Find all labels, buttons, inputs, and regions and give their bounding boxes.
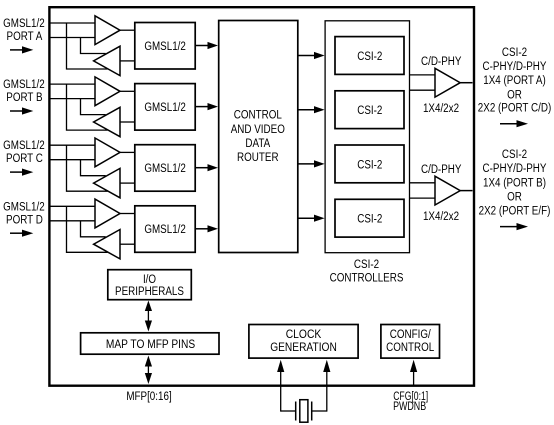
port C wire forward buffer to GMSL block (120, 151, 135, 153)
CSI-2 controllers container box (325, 21, 409, 253)
svg-text:1X4/2x2: 1X4/2x2 (423, 210, 459, 223)
bidirectional arrow MFP map to MFP pins (145, 356, 152, 385)
CSI-2 controller block 4 (335, 199, 404, 237)
arrow GMSL block A to router (195, 42, 218, 49)
control and video data router block (219, 21, 298, 253)
port B wire branch to reverse buffer output (outer loop) (67, 84, 108, 130)
port C wire branch to reverse buffer output (outer loop) (67, 145, 108, 191)
port D wire forward buffer to GMSL block (120, 213, 135, 215)
port C wire branch to reverse buffer output (inner loop) (81, 160, 106, 176)
wire PHY 2 to chip edge (460, 190, 472, 192)
svg-text:PORT C: PORT C (6, 152, 43, 165)
svg-text:1X4/2x2: 1X4/2x2 (423, 102, 459, 115)
svg-text:C/D-PHY: C/D-PHY (421, 163, 462, 176)
crystal XTAL symbol (281, 400, 327, 423)
svg-text:PWDNB: PWDNB (393, 400, 426, 414)
port C wire SIO+ into forward buffer (49, 144, 95, 146)
svg-text:CSI-2: CSI-2 (357, 158, 382, 171)
svg-text:1X4 (PORT B): 1X4 (PORT B) (483, 176, 546, 189)
svg-text:1X4 (PORT A): 1X4 (PORT A) (483, 74, 546, 87)
port A wire SIO+ into forward buffer (49, 22, 95, 24)
svg-text:ROUTER: ROUTER (237, 151, 279, 164)
GMSL1/2 link block U1 (135, 23, 195, 70)
crystal input arrow right (323, 360, 330, 412)
svg-text:CSI-2: CSI-2 (357, 50, 382, 63)
C/D-PHY output driver 1 (435, 68, 460, 97)
port D wire GMSL block to reverse buffer (120, 243, 135, 245)
port C wire GMSL block to reverse buffer (120, 182, 135, 184)
arrow GMSL block B to router (195, 103, 218, 110)
output arrow 1 (500, 120, 528, 127)
port D reverse channel buffer amplifier (94, 230, 120, 259)
map to MFP pins block (81, 333, 219, 354)
clock generation block (249, 325, 358, 359)
port D forward channel buffer amplifier (95, 199, 120, 228)
svg-text:GENERATION: GENERATION (270, 341, 337, 354)
svg-text:CONTROL: CONTROL (234, 109, 282, 122)
port B wire SIO+ into forward buffer (49, 83, 95, 85)
port B wire GMSL block to reverse buffer (120, 121, 135, 123)
port C external input arrow (10, 169, 33, 176)
port D wire SIO+ into forward buffer (49, 205, 95, 207)
output port description block 1 (478, 46, 551, 114)
I/O peripherals block (108, 270, 192, 300)
CSI-2 controller block 2 (335, 91, 404, 129)
svg-text:CSI-2: CSI-2 (354, 258, 379, 271)
arrow router to CSI-2 controller 1 (298, 52, 325, 59)
C/D-PHY output driver 2 (435, 176, 460, 205)
bidirectional arrow I/O peripherals to MFP map (145, 301, 152, 332)
svg-text:GMSL1/2: GMSL1/2 (144, 101, 186, 114)
port B wire forward buffer to GMSL block (120, 90, 135, 92)
port B reverse channel buffer amplifier (94, 107, 120, 136)
output port description block 2 (479, 148, 551, 218)
svg-text:GMSL1/2: GMSL1/2 (3, 78, 45, 91)
svg-text:CONFIG/: CONFIG/ (390, 328, 432, 341)
GMSL1/2 link block U4 (135, 206, 195, 253)
port B external input arrow (10, 107, 33, 114)
port A external input arrow (10, 46, 33, 53)
port D wire branch to reverse buffer output (outer loop) (67, 206, 108, 252)
svg-text:CSI-2: CSI-2 (502, 46, 527, 59)
svg-text:CSI-2: CSI-2 (357, 104, 382, 117)
output arrow 2 (500, 223, 528, 230)
port D wire branch to reverse buffer output (inner loop) (81, 221, 106, 237)
svg-text:MFP[0:16]: MFP[0:16] (126, 390, 171, 403)
GMSL1/2 link block U2 (135, 84, 195, 131)
svg-text:CSI-2: CSI-2 (502, 148, 527, 161)
port B wire SIO- into forward buffer (49, 98, 95, 100)
svg-text:MAP TO MFP PINS: MAP TO MFP PINS (106, 338, 195, 351)
port C reverse channel buffer amplifier (94, 168, 120, 197)
chip outer boundary box (49, 7, 474, 386)
port A wire GMSL block to reverse buffer (120, 60, 135, 62)
svg-text:PERIPHERALS: PERIPHERALS (115, 285, 184, 298)
svg-text:AND VIDEO: AND VIDEO (231, 123, 285, 136)
crystal input arrow left (277, 360, 284, 412)
port A wire SIO- into forward buffer (49, 37, 95, 39)
config input arrow (410, 360, 417, 385)
svg-text:CSI-2: CSI-2 (357, 213, 382, 226)
port D wire SIO- into forward buffer (49, 220, 95, 222)
port A forward channel buffer amplifier (95, 16, 120, 45)
svg-text:GMSL1/2: GMSL1/2 (3, 139, 45, 152)
arrow router to CSI-2 controller 3 (298, 160, 325, 167)
svg-text:OR: OR (507, 191, 522, 204)
svg-text:C-PHY/D-PHY: C-PHY/D-PHY (483, 60, 548, 73)
svg-text:CONTROLLERS: CONTROLLERS (330, 272, 404, 285)
svg-text:GMSL1/2: GMSL1/2 (144, 223, 186, 236)
svg-text:CONTROL: CONTROL (386, 341, 434, 354)
arrow GMSL block C to router (195, 164, 218, 171)
wires CSI-2 container to PHY 1 (410, 75, 436, 90)
svg-text:PORT B: PORT B (6, 91, 42, 104)
svg-text:GMSL1/2: GMSL1/2 (3, 17, 45, 30)
svg-text:2X2 (PORT C/D): 2X2 (PORT C/D) (478, 101, 551, 114)
svg-text:OR: OR (507, 89, 522, 102)
port A wire branch to reverse buffer output (inner loop) (81, 38, 106, 54)
svg-text:GMSL1/2: GMSL1/2 (144, 162, 186, 175)
port A wire forward buffer to GMSL block (120, 29, 135, 31)
svg-text:DATA: DATA (245, 137, 270, 150)
wires CSI-2 container to PHY 2 (410, 183, 436, 198)
port D external input arrow (10, 230, 33, 237)
svg-text:2X2 (PORT E/F): 2X2 (PORT E/F) (479, 205, 551, 218)
GMSL1/2 link block U3 (135, 145, 195, 192)
svg-text:PORT D: PORT D (6, 213, 43, 226)
svg-text:PORT A: PORT A (7, 30, 43, 43)
arrow router to CSI-2 controller 4 (298, 215, 325, 222)
svg-text:CLOCK: CLOCK (286, 328, 322, 341)
port C wire SIO- into forward buffer (49, 159, 95, 161)
svg-text:C-PHY/D-PHY: C-PHY/D-PHY (483, 162, 548, 175)
port A reverse channel buffer amplifier (94, 46, 120, 75)
CSI-2 controller block 1 (335, 37, 404, 75)
port B forward channel buffer amplifier (95, 77, 120, 106)
wire PHY 1 to chip edge (460, 82, 472, 84)
port C forward channel buffer amplifier (95, 138, 120, 167)
CSI-2 controller block 3 (335, 145, 404, 183)
port B wire branch to reverse buffer output (inner loop) (81, 99, 106, 115)
port A wire branch to reverse buffer output (outer loop) (67, 23, 108, 69)
svg-text:GMSL1/2: GMSL1/2 (144, 40, 186, 53)
config/control block (381, 325, 440, 359)
arrow router to CSI-2 controller 2 (298, 106, 325, 113)
svg-text:GMSL1/2: GMSL1/2 (3, 200, 45, 213)
svg-text:C/D-PHY: C/D-PHY (421, 55, 462, 68)
arrow GMSL block D to router (195, 225, 218, 232)
